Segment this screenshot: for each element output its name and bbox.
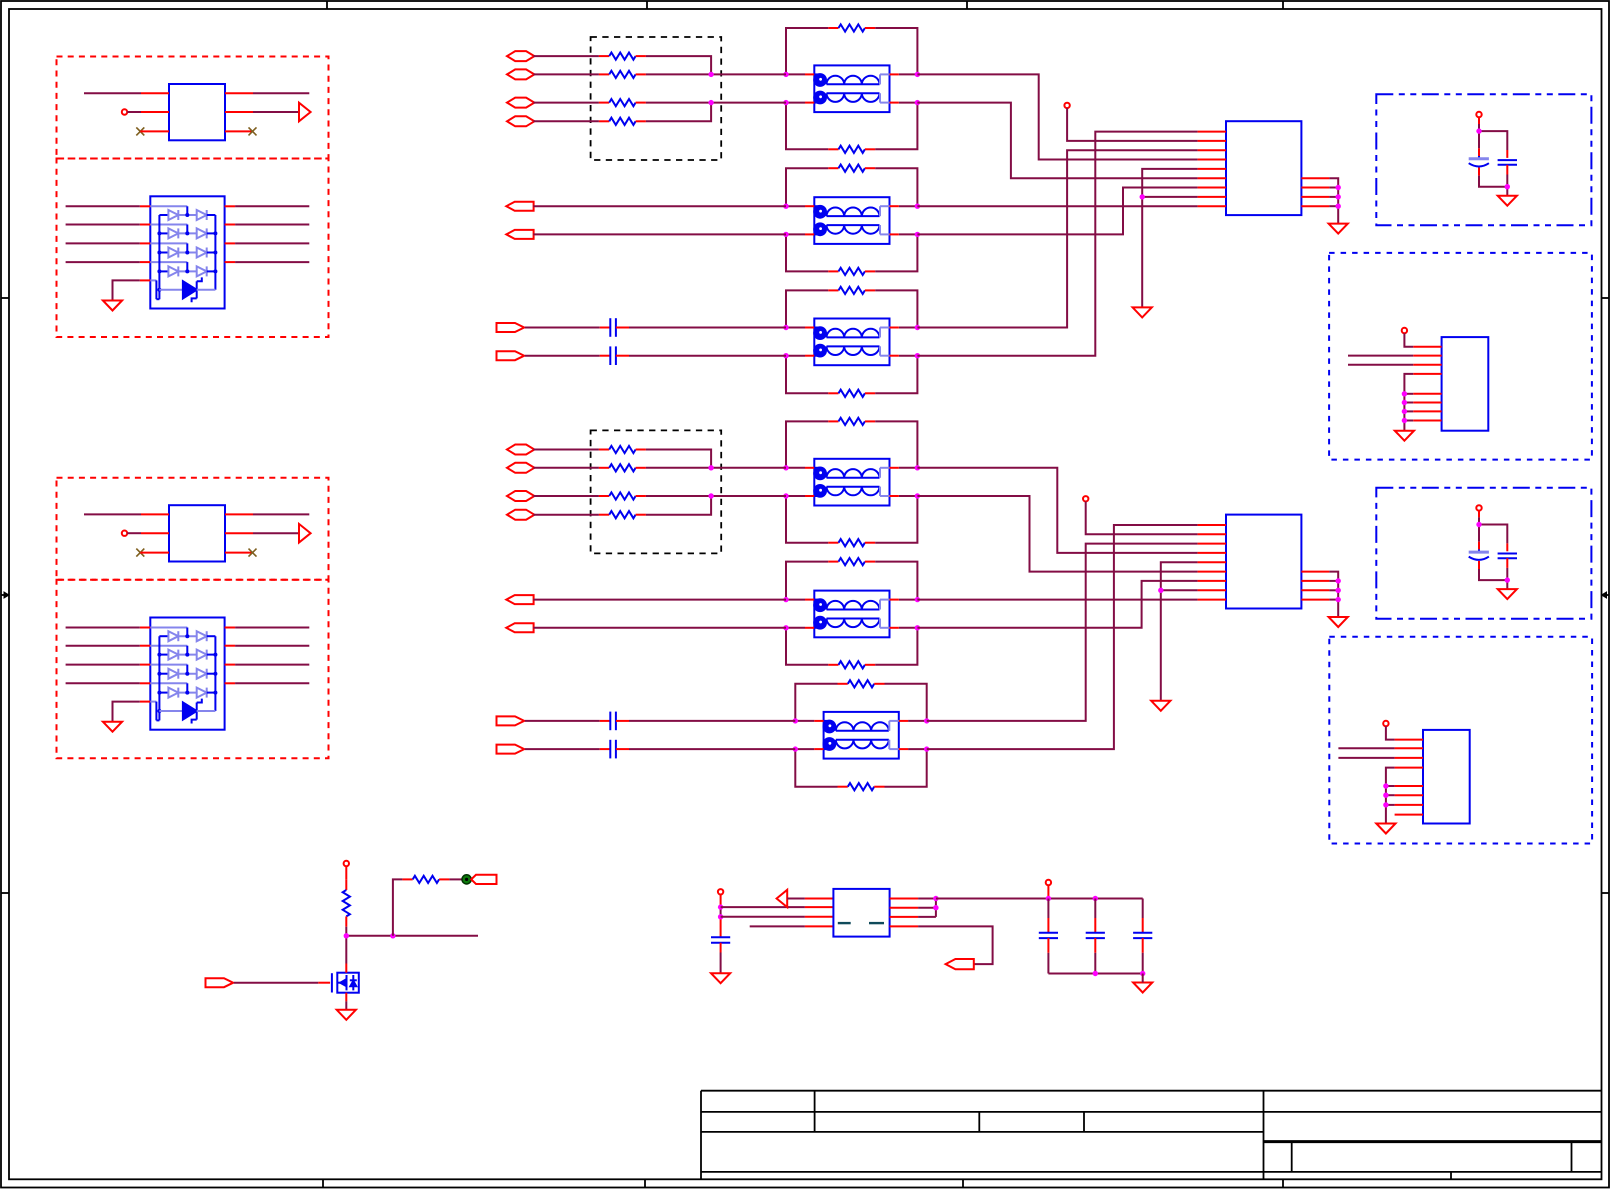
port TX1+ pentagon — [497, 323, 525, 332]
wire cap to choke TX2+ — [629, 720, 795, 722]
wire cap to choke TX1+ — [629, 327, 786, 329]
wire isolator input row1 group 1 — [84, 92, 169, 94]
frame centering arrow right — [1602, 592, 1610, 598]
optocoupler section dashed box group 2 upper — [57, 478, 329, 580]
power circle output rail — [1046, 880, 1051, 885]
junction dots T3 — [783, 325, 920, 359]
wire J1 ground bus — [1404, 374, 1413, 431]
wire T6 upper to PHY pin3 group 2 — [927, 544, 1198, 721]
wire power to PHY pin2 group 1 — [1067, 108, 1198, 141]
series resistor R14 — [599, 118, 646, 125]
wire isolator output row1 group 1 — [225, 92, 309, 94]
PHY magnetics IC U2 — [1198, 121, 1330, 215]
junction dots bottom rail — [1093, 971, 1146, 976]
output arrow group 1 — [299, 103, 311, 122]
wire reg outputs merge — [890, 899, 936, 917]
termination resistor R2B bottom loop — [828, 268, 875, 275]
junction dots IC right group 2 — [1336, 578, 1341, 602]
decoupling caps dash-dot box group 2 — [1376, 488, 1591, 619]
wire power to J1 pin1 — [1404, 333, 1413, 347]
wire diode array right row1 group 2 — [235, 627, 309, 629]
wire choke row upper T4 — [786, 467, 917, 469]
junction dot branch node — [390, 933, 395, 938]
power circle isolator group 2 — [122, 531, 127, 536]
junction dots J1 ground bus — [1402, 391, 1407, 423]
wire port to resistor R12 — [533, 73, 599, 75]
wire top loop T1 — [786, 28, 917, 74]
common-mode choke T6 — [814, 712, 908, 759]
optocoupler section dashed box group 1 upper — [57, 57, 329, 159]
wire resistor merge lower group 1 — [646, 103, 786, 122]
port TX1- pentagon — [497, 351, 525, 360]
ground symbol J2 — [1376, 824, 1395, 834]
wire TX2+ to cap — [525, 720, 600, 722]
pull-up resistor R20 vertical — [345, 866, 347, 880]
wire reg pin4 to feedback port — [890, 926, 993, 964]
series capacitor C11 — [600, 318, 629, 337]
ground symbol routing group 2 — [1151, 701, 1170, 711]
wire diode array right row2 group 1 — [235, 224, 309, 226]
power circle connector J2 — [1383, 721, 1388, 726]
wire RX1- — [533, 233, 786, 235]
wire bottom loop T2 — [786, 234, 917, 271]
wire choke row lower T2 — [786, 233, 917, 235]
connector dashed box J2 — [1329, 637, 1592, 844]
series resistor R24 — [599, 511, 646, 518]
termination resistor R1A top loop — [828, 24, 875, 31]
wire isolator input row2 group 1 — [127, 111, 169, 113]
wire choke row upper T2 — [786, 205, 917, 207]
wire port to resistor R24 — [533, 514, 599, 516]
wire diode array left row1 group 2 — [66, 627, 140, 629]
port P2_3 bidirectional — [507, 491, 534, 501]
wire TX2- to cap — [525, 748, 600, 750]
PHY magnetics IC U3 — [1198, 515, 1330, 609]
wire choke row upper T6 — [795, 720, 926, 722]
junction dots T4 — [783, 465, 920, 499]
junction dots T2 — [783, 204, 920, 238]
ground symbol MOSFET — [337, 1010, 356, 1020]
series resistor R22 — [599, 464, 646, 471]
wire IC right ground bus group 1 — [1329, 178, 1338, 223]
frame tick marks left — [1, 298, 9, 893]
green net-tie dot — [462, 875, 471, 884]
wire reg input to pin2 — [721, 906, 834, 908]
series resistor R11 — [599, 53, 646, 60]
wire diode array left row4 group 2 — [66, 682, 140, 684]
ground symbol routing group 1 — [1133, 307, 1152, 317]
junction dot reg out 2 — [933, 905, 938, 910]
junction dot ground bus group 1 — [1140, 194, 1145, 199]
wire diode array left row2 group 2 — [66, 645, 140, 647]
wire choke row lower T3 — [786, 355, 917, 357]
termination resistor R6B bottom loop — [838, 783, 885, 790]
wire isolator output row2 group 2 — [225, 532, 299, 534]
junction dot cap bottom group 1 — [1505, 184, 1510, 189]
junction dot reg input 2 — [718, 914, 723, 919]
power circle regulator input — [718, 889, 723, 894]
wire resistor merge upper group 2 — [646, 450, 786, 468]
wire choke row upper T1 — [786, 73, 917, 75]
port RX1- arrow — [506, 230, 533, 239]
wire TX1+ to cap — [525, 327, 600, 329]
termination resistor R1B bottom loop — [828, 146, 875, 153]
ground symbol IC right group 1 — [1329, 224, 1348, 234]
input capacitor C30 — [711, 928, 730, 953]
isolator U21 — [169, 505, 225, 561]
port TX2+ pentagon — [497, 716, 525, 725]
junction dots IC right group 1 — [1336, 185, 1341, 209]
power circle PHY pin2 group 2 — [1083, 496, 1088, 501]
frame tick marks right — [1602, 298, 1610, 893]
wire choke row upper T5 — [786, 599, 917, 601]
common-mode choke T1 — [805, 65, 899, 112]
junction dot cap top group 2 — [1476, 522, 1481, 527]
wire choke row lower T5 — [786, 627, 917, 629]
wire power to PHY pin2 group 2 — [1086, 502, 1198, 535]
output capacitor C31 — [1039, 899, 1058, 974]
wire power to J2 pin1 — [1386, 726, 1395, 739]
wire T3 upper to PHY pin3 group 1 — [917, 150, 1197, 327]
termination resistor R3B bottom loop — [828, 390, 875, 397]
common-mode choke T5 — [805, 591, 899, 638]
port P1_1 bidirectional — [507, 51, 534, 61]
series resistor R13 — [599, 99, 646, 106]
wire caps bottom group 1 — [1479, 175, 1507, 196]
wire top loop T3 — [786, 290, 917, 327]
junction dots T5 — [783, 597, 920, 631]
wire resistor to drain node — [346, 927, 478, 964]
series capacitor C12 — [600, 346, 629, 365]
wire port to resistor R13 — [533, 102, 599, 104]
wire caps bottom rail — [1048, 973, 1142, 975]
port P1_2 bidirectional — [507, 69, 534, 79]
wire T4 upper to PHY pin4 group 2 — [917, 468, 1197, 553]
polarized capacitor CP1 — [1469, 148, 1489, 175]
termination resistor R5A top loop — [828, 558, 875, 565]
wire bottom loop T1 — [786, 103, 917, 150]
wire RX2- — [533, 627, 786, 629]
output arrow group 2 — [299, 524, 311, 543]
input arrow regulator pin1 — [777, 890, 788, 907]
wire choke row lower T4 — [786, 495, 917, 497]
optocoupler section dashed box group 2 lower — [57, 580, 329, 759]
ground symbol output caps — [1133, 983, 1152, 993]
wire diode array right row4 group 2 — [235, 682, 309, 684]
wire diode array left row1 group 1 — [66, 205, 140, 207]
capacitor C23 — [1498, 543, 1517, 568]
title block field dividers left — [815, 1091, 1084, 1132]
common-mode choke T4 — [805, 459, 899, 506]
wire IC right ground bus group 2 — [1329, 572, 1338, 617]
junction dots T6 — [793, 718, 930, 752]
wire port to resistor R22 — [533, 467, 599, 469]
wire resistor merge upper group 1 — [646, 56, 786, 74]
output capacitor C33 — [1133, 899, 1152, 974]
power circle connector J1 — [1402, 328, 1407, 333]
wire bottom loop T5 — [786, 628, 917, 665]
wire power to caps group 2 — [1479, 511, 1507, 544]
ground symbol caps group 2 — [1498, 589, 1517, 599]
wire T6 lower to PHY pin1 group 2 — [927, 525, 1198, 749]
junction dots resistor merge group 1 — [708, 72, 713, 106]
wire top loop T2 — [786, 168, 917, 206]
common-mode choke T3 — [805, 319, 899, 366]
wire T1 upper to PHY pin4 group 1 — [917, 74, 1197, 159]
wire cap to ground — [720, 953, 722, 974]
wire top loop T5 — [786, 562, 917, 600]
wire isolator input row1 group 2 — [84, 513, 169, 515]
power circle PHY pin2 group 1 — [1064, 103, 1069, 108]
port LED pentagon — [471, 875, 496, 884]
ground symbol J1 — [1395, 431, 1414, 441]
wire J2 pin2 signal — [1338, 747, 1394, 749]
no-connect X isolator output row3 group 1 — [225, 127, 257, 135]
termination resistor R5B bottom loop — [828, 661, 875, 668]
wire pin4 stub — [750, 925, 834, 927]
power circle MOSFET pull-up — [344, 861, 349, 866]
port P2_4 bidirectional — [507, 510, 534, 520]
ground symbol caps group 1 — [1498, 196, 1517, 206]
wire J1 pin2 signal — [1348, 355, 1413, 357]
port RX1+ arrow — [506, 202, 533, 211]
series capacitor C21 — [600, 712, 629, 731]
connector dashed box J1 — [1329, 253, 1592, 460]
port feedback pentagon left — [946, 959, 974, 969]
wire T3 lower to PHY pin1 group 1 — [917, 132, 1197, 356]
wire regulator input node — [720, 895, 722, 928]
wire bottom loop T3 — [786, 356, 917, 394]
wire diode array right row3 group 2 — [235, 664, 309, 666]
junction dot reg input 1 — [718, 904, 723, 909]
wire resistor merge lower group 2 — [646, 496, 786, 515]
wire diode array right row1 group 1 — [235, 205, 309, 207]
wire diode array left row3 group 1 — [66, 242, 140, 244]
common-mode choke T2 — [805, 197, 899, 244]
wire diode array right row2 group 2 — [235, 645, 309, 647]
resistor R21 — [402, 876, 449, 883]
wire T2 lower to PHY pin7 group 1 — [917, 188, 1197, 235]
wire cap to choke TX1- — [629, 355, 786, 357]
title block outline — [701, 1091, 1602, 1180]
regulator U5 — [833, 889, 889, 937]
ground symbol C30 — [711, 973, 730, 983]
wire ground bus PHY pin5 pin8 group 2 — [1161, 562, 1198, 701]
wire bottom loop T4 — [786, 496, 917, 543]
port P1_4 bidirectional — [507, 116, 534, 126]
series resistor dashed box group 1 — [591, 37, 722, 160]
ground symbol IC right group 2 — [1329, 617, 1348, 627]
junction dot reg out 1 — [933, 896, 938, 901]
wire J2 ground bus — [1386, 768, 1395, 824]
termination resistor R3A top loop — [828, 287, 875, 294]
series resistor R21 — [599, 446, 646, 453]
wire port to resistor R23 — [533, 495, 599, 497]
MOSFET drain pin — [345, 964, 347, 973]
wire T5 upper to PHY pin9 group 2 — [917, 599, 1197, 601]
termination resistor R4A top loop — [828, 418, 875, 425]
termination resistor R4B bottom loop — [828, 539, 875, 546]
series capacitor C22 — [600, 740, 629, 759]
wire isolator output row1 group 2 — [225, 513, 309, 515]
wire arrow to pin1 — [787, 898, 833, 900]
junction dot cap top group 1 — [1476, 128, 1481, 133]
wire J2 pin3 signal — [1338, 757, 1394, 759]
port TX2- pentagon — [497, 745, 525, 754]
wire caps bottom group 2 — [1479, 568, 1507, 589]
ESD diode array D1 — [140, 196, 235, 308]
series resistor dashed box group 2 — [591, 430, 722, 553]
wire diode array right row3 group 1 — [235, 242, 309, 244]
wire choke row lower T1 — [786, 102, 917, 104]
wire TX1- to cap — [525, 355, 600, 357]
wire T2 upper to PHY pin9 group 1 — [917, 205, 1197, 207]
series resistor R23 — [599, 492, 646, 499]
capacitor C13 — [1498, 150, 1517, 175]
port P1_3 bidirectional — [507, 98, 534, 108]
power circle caps group 2 — [1476, 505, 1481, 510]
wire isolator input row2 group 2 — [127, 532, 169, 534]
output capacitor C32 — [1086, 899, 1105, 974]
wire cap to choke TX2- — [629, 748, 795, 750]
junction dot ground bus group 2 — [1158, 588, 1163, 593]
wire R21 to LED port — [449, 878, 462, 880]
wire diode array left row4 group 1 — [66, 261, 140, 263]
wire reg input to pin3 — [721, 916, 834, 918]
wire power to caps group 1 — [1479, 117, 1507, 150]
decoupling caps dash-dot box group 1 — [1376, 94, 1591, 225]
frame centering arrow left — [1, 592, 9, 598]
no-connect X isolator output row3 group 2 — [225, 549, 257, 557]
wire diode array ground group 2 — [113, 702, 140, 722]
connector J2 — [1395, 730, 1470, 824]
power circle caps group 1 — [1476, 112, 1481, 117]
junction dots output rail — [1046, 896, 1098, 901]
polarized capacitor CP2 — [1469, 542, 1489, 569]
wire J1 pin3 signal — [1348, 364, 1413, 366]
junction dot cap bottom group 2 — [1505, 577, 1510, 582]
ground symbol diode array group 1 — [103, 301, 122, 311]
wire branch up to resistor R21 — [393, 879, 403, 935]
wire diode array left row2 group 1 — [66, 224, 140, 226]
series resistor R12 — [599, 71, 646, 78]
wire diode array left row3 group 2 — [66, 664, 140, 666]
wire gate — [234, 982, 330, 984]
port RX2- arrow — [506, 623, 533, 632]
wire bottom loop T6 — [795, 749, 926, 787]
junction dot drain node — [344, 933, 349, 938]
ground symbol diode array group 2 — [103, 722, 122, 732]
connector J1 — [1413, 337, 1488, 431]
frame tick marks bottom — [323, 1179, 1283, 1187]
port P2_2 bidirectional — [507, 463, 534, 473]
termination resistor R6A top loop — [838, 680, 885, 687]
wire diode array right row4 group 1 — [235, 261, 309, 263]
MOSFET source pin — [345, 993, 347, 1010]
wire ground bus PHY pin5 pin8 group 1 — [1142, 169, 1197, 308]
wire choke row lower T6 — [795, 748, 926, 750]
port RX2+ arrow — [506, 595, 533, 604]
wire port to resistor R14 — [533, 120, 599, 122]
optocoupler section dashed box group 1 lower — [57, 159, 329, 338]
termination resistor R2A top loop — [828, 165, 875, 172]
title block right section — [1264, 1091, 1602, 1180]
wire RX2+ — [533, 599, 786, 601]
wire RX1+ — [533, 205, 786, 207]
frame tick marks top — [327, 1, 1283, 9]
wire T4 lower to PHY pin6 group 2 — [917, 496, 1197, 572]
port P2_1 bidirectional — [507, 445, 534, 455]
wire T5 lower to PHY pin7 group 2 — [917, 581, 1197, 628]
wire top loop T4 — [786, 421, 917, 467]
junction dots T1 — [783, 72, 920, 106]
transistor Q1 — [332, 973, 359, 993]
wire top loop T6 — [795, 684, 926, 721]
wire reg output rail — [936, 898, 1143, 900]
wire choke row upper T3 — [786, 327, 917, 329]
power circle isolator group 1 — [122, 109, 127, 114]
isolator U11 — [169, 84, 225, 140]
wire port to resistor R21 — [533, 449, 599, 451]
junction dots resistor merge group 2 — [708, 465, 713, 499]
junction dots J2 ground bus — [1383, 783, 1388, 807]
wire T1 lower to PHY pin6 group 1 — [917, 103, 1197, 179]
ESD diode array D2 — [140, 618, 235, 730]
wire diode array ground group 1 — [113, 280, 140, 300]
wire isolator output row2 group 1 — [225, 111, 299, 113]
wire port to resistor R11 — [533, 55, 599, 57]
no-connect X isolator input row3 group 2 — [136, 549, 169, 557]
port MOSFET gate — [206, 978, 234, 987]
no-connect X isolator input row3 group 1 — [136, 127, 169, 135]
